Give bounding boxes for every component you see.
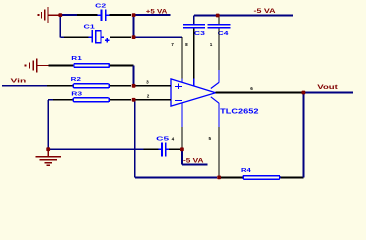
svg-text:4: 4 bbox=[172, 137, 175, 142]
capacitor C2 bbox=[98, 10, 110, 21]
wire R1 down to node E bbox=[133, 66, 135, 86]
wire R3 left down to ground node bbox=[47, 100, 49, 149]
wire ground to C5 bbox=[48, 148, 143, 150]
wire node F to pin 2 bbox=[134, 99, 171, 101]
pin 5 wire (clamp) bbox=[211, 97, 219, 103]
pin 1 wire bbox=[218, 28, 220, 70]
svg-text:8: 8 bbox=[185, 42, 188, 47]
pin 7 wire (V+) bbox=[181, 37, 183, 78]
svg-text:C3: C3 bbox=[194, 31, 205, 37]
node A junction (left of C2) bbox=[58, 13, 62, 17]
net Vout bbox=[303, 92, 352, 94]
resistor R2 bbox=[47, 85, 73, 87]
node D junction (-5VA rail / C4) bbox=[216, 14, 220, 18]
svg-text:TLC2652: TLC2652 bbox=[220, 106, 258, 115]
svg-text:R1: R1 bbox=[71, 56, 82, 62]
svg-text:-5 VA: -5 VA bbox=[183, 157, 204, 164]
power port +5 VA bbox=[134, 14, 171, 16]
svg-text:Vin: Vin bbox=[11, 79, 27, 85]
wire node D down to C4 bbox=[218, 16, 220, 25]
pin 8 wire bbox=[193, 28, 195, 78]
wire C1 to node C bbox=[110, 36, 131, 38]
resistor R3 bbox=[48, 99, 53, 101]
svg-text:R2: R2 bbox=[71, 77, 81, 83]
ground (top-left power ground) bbox=[38, 7, 59, 23]
wire rail down to C3 bbox=[193, 16, 195, 25]
wire node A to C2 bbox=[60, 14, 77, 16]
svg-text:R3: R3 bbox=[71, 92, 82, 98]
power port -5 VA (top rail) bbox=[194, 15, 293, 17]
svg-text:6: 6 bbox=[250, 86, 253, 91]
pin 4 wire (V-) bbox=[181, 103, 183, 127]
svg-text:5: 5 bbox=[209, 136, 212, 141]
wire node B down to node C bbox=[133, 15, 135, 37]
svg-text:Vout: Vout bbox=[317, 84, 338, 91]
net Vin bbox=[2, 85, 47, 87]
node G junction (ground node) bbox=[46, 147, 50, 151]
feedback wire (node F down and right to R4) bbox=[134, 100, 136, 178]
svg-text:1: 1 bbox=[210, 42, 213, 47]
resistor R4 bbox=[219, 176, 243, 178]
svg-text:R4: R4 bbox=[241, 168, 252, 174]
op-amp U1 TLC2652 triangle bbox=[171, 79, 216, 106]
wire C5 to node H bbox=[169, 148, 180, 150]
svg-text:2: 2 bbox=[147, 93, 150, 98]
wire node E to pin 3 bbox=[134, 85, 171, 87]
node H junction (V- node) bbox=[180, 147, 184, 151]
node I junction (R4 left) bbox=[217, 176, 221, 180]
svg-text:3: 3 bbox=[146, 80, 149, 85]
svg-text:C2: C2 bbox=[95, 4, 106, 10]
pin 6 output wire bbox=[216, 92, 302, 94]
wire C2 to node B bbox=[110, 14, 132, 16]
node F junction (pin2 node) bbox=[132, 98, 136, 102]
capacitor C5 bbox=[159, 143, 170, 157]
svg-text:C5: C5 bbox=[156, 136, 169, 142]
capacitor C1 (polarized) bbox=[88, 30, 109, 43]
ground (earth, bottom-left) bbox=[36, 151, 62, 165]
node E junction (pin3 node) bbox=[132, 84, 136, 88]
svg-text:+5 VA: +5 VA bbox=[146, 8, 168, 15]
power port -5 VA (bottom) bbox=[181, 149, 183, 164]
resistor R1 bbox=[48, 65, 73, 67]
node C junction (C1 right) bbox=[132, 35, 136, 39]
wire node C to pin 7 elbow bbox=[134, 36, 182, 38]
svg-text:-5 VA: -5 VA bbox=[254, 8, 277, 15]
node B junction (+5VA node) bbox=[132, 13, 136, 17]
ground (R1 bias ground) bbox=[25, 58, 49, 72]
capacitor C3 bbox=[183, 25, 205, 28]
svg-text:7: 7 bbox=[171, 42, 174, 47]
wire node A down to C1 row bbox=[59, 15, 61, 37]
svg-text:C1: C1 bbox=[84, 24, 95, 30]
feedback wire up to output bbox=[302, 93, 304, 178]
node J junction (output node) bbox=[302, 91, 306, 95]
capacitor C4 bbox=[208, 25, 231, 28]
